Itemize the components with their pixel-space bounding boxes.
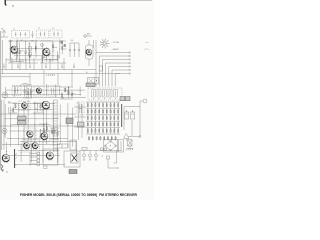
- capacitor C4 doublet: [61, 41, 66, 48]
- wire: gang drop: [94, 40, 97, 53]
- tube V8b (driver): [41, 133, 48, 141]
- wire: left edge verticals mid: [2, 100, 5, 150]
- svg-text:.01: .01: [68, 93, 70, 95]
- jack J2: [140, 99, 147, 136]
- label box: legend 1: [120, 97, 125, 101]
- harness ladder wires: [96, 52, 130, 87]
- resistor row bottom: [88, 136, 116, 141]
- shield can V3: [86, 45, 94, 59]
- tube V1 (FM RF amp): [11, 46, 18, 54]
- fuse F1: [128, 140, 133, 147]
- wire: B+ rail 2: [1, 72, 120, 74]
- antenna input cluster: [1, 30, 8, 37]
- node: stray dot: [12, 5, 13, 6]
- resistor R30: [62, 144, 68, 148]
- capacitor C21: [131, 111, 135, 120]
- wire: mid rail 2: [0, 125, 84, 127]
- label: under output box: [44, 166, 48, 168]
- audio wiring c: [50, 128, 60, 139]
- IF transformer T2: [37, 30, 49, 38]
- tube V3 (FM osc): [86, 49, 92, 56]
- shield can V6: [19, 101, 30, 111]
- svg-text:.005: .005: [70, 40, 73, 42]
- node: tap mark: [15, 164, 17, 166]
- terminal block TB1: [88, 78, 99, 85]
- label box: xformer label: [69, 170, 77, 174]
- bridge rectifier D1-D4: [104, 140, 124, 153]
- wire: dark drop: [14, 149, 16, 168]
- wire: binding mark top-left: [5, 0, 6, 5]
- svg-text:220: 220: [24, 94, 27, 96]
- wire: ladder taps: [57, 144, 62, 148]
- tube V6 (ratio det): [22, 103, 28, 110]
- wire: thick bus: [121, 104, 123, 127]
- wire: grid-left connectors: [74, 102, 86, 140]
- svg-text:68: 68: [16, 58, 18, 60]
- svg-text:300: 300: [1, 29, 4, 31]
- tube V10 (output): [32, 143, 38, 150]
- IF transformer T1 (FM ant coil): [12, 31, 30, 39]
- wire: chassis scribble bottom-left: [1, 164, 4, 172]
- resistor R8 on harness: [99, 66, 103, 71]
- resistor stack R5: [29, 47, 32, 57]
- tube V6b (FM IF amp): [42, 101, 50, 110]
- tube V10 can: [31, 140, 40, 153]
- IF transformer T6: [48, 86, 57, 96]
- label box: MPX: [78, 122, 85, 127]
- band switch S1 assembly: [88, 88, 130, 100]
- IF transformer T7: [77, 102, 84, 115]
- wire: B+ rail 1: [1, 69, 96, 71]
- shield can V8: [24, 128, 36, 140]
- audio wiring b: [39, 124, 48, 137]
- IF transformer T3: [50, 30, 62, 38]
- FM RF stage wiring: [8, 41, 38, 63]
- pilot lamp row: [80, 148, 122, 164]
- wire: right rail: [124, 107, 141, 138]
- wire: rail-to-AM droppers: [30, 70, 72, 87]
- label box: stereo ind 2: [18, 121, 27, 125]
- power transformer box: [64, 151, 80, 167]
- tube V2 (FM mixer): [43, 49, 50, 57]
- node: arrows: [15, 153, 17, 159]
- dial starburst: [100, 39, 110, 49]
- wire: page top hairline: [5, 0, 152, 2]
- wire: osc drop: [88, 40, 90, 66]
- IF transformer T4: [12, 86, 21, 96]
- svg-text:+0: +0: [101, 156, 103, 158]
- wire: left edge vertical: [0, 31, 2, 168]
- wire: stray marks right margin: [144, 42, 149, 49]
- tube V11 (rectifier): [46, 152, 53, 161]
- tube V9 can: [23, 140, 32, 153]
- wire web FM section: [6, 39, 60, 64]
- svg-text:←AM ANT: ←AM ANT: [111, 48, 119, 51]
- svg-text:.01: .01: [50, 132, 52, 134]
- speaker terminal strip: [30, 152, 40, 166]
- label box: stereo ind 1: [18, 116, 27, 120]
- wire: AC cord: [107, 156, 119, 168]
- label box: dark legend: [66, 118, 73, 124]
- output transformer box with tube V11: [43, 149, 58, 165]
- wire: IF rail: [2, 97, 86, 99]
- svg-text:68: 68: [62, 97, 64, 99]
- wire: arc hop: [20, 84, 30, 86]
- label box: switch name: [86, 83, 95, 87]
- svg-text:T3: T3: [52, 28, 54, 30]
- IF amp wiring: [60, 87, 75, 99]
- svg-text:1 2 3 5 6: 1 2 3 5 6: [46, 75, 56, 77]
- node: stray specks bottom-left: [2, 169, 7, 172]
- svg-text:.01: .01: [10, 110, 12, 112]
- node: coax input J1: [84, 35, 92, 38]
- svg-text:T2: T2: [38, 28, 40, 30]
- ground: AC hatch: [126, 146, 134, 151]
- wire web AM row: [1, 84, 85, 98]
- tube V12 (rectifier 2): [2, 154, 9, 163]
- wire: mid rail 1: [0, 113, 76, 115]
- AM conv wiring: [23, 85, 33, 98]
- label box: legend 2: [125, 97, 130, 101]
- ground: warning triangle: [124, 134, 130, 142]
- tube V4 (AM RF): [2, 92, 8, 99]
- wire web output band: [6, 141, 77, 165]
- node: osc trimmer: [41, 44, 44, 47]
- tube V5 (AM conv): [36, 88, 41, 95]
- svg-text:455: 455: [8, 102, 11, 104]
- capacitor C5 row: [69, 43, 80, 57]
- svg-text:B+: B+: [86, 72, 88, 74]
- svg-text:FISHER MODEL 500-B (SERIAL 100: FISHER MODEL 500-B (SERIAL 10000 TO 3999…: [20, 193, 138, 197]
- wire: FM-to-rail droppers: [6, 58, 64, 70]
- wire: B+ rail 3: [1, 76, 30, 78]
- multiplex decoder RC grid: [86, 102, 120, 134]
- svg-text:T1: T1: [13, 29, 15, 31]
- tube V8 (AF amp): [27, 131, 33, 139]
- wire web mid band: [2, 100, 72, 147]
- IF can T5: [34, 86, 44, 96]
- audio wiring a: [33, 103, 45, 113]
- svg-text:.01: .01: [28, 44, 30, 46]
- capacitor C30 box: [70, 140, 76, 150]
- det wiring: [8, 103, 17, 113]
- svg-text:ANT: ANT: [87, 33, 90, 36]
- svg-text:1M: 1M: [40, 110, 43, 112]
- capacitor C1: [31, 31, 33, 38]
- choke ladder L8: [54, 100, 58, 152]
- capacitor C20: [125, 111, 129, 120]
- tube V8b can: [40, 131, 50, 143]
- svg-text:←TO DIAL: ←TO DIAL: [111, 41, 119, 44]
- tube V7 (AF amp): [2, 128, 7, 135]
- tube V9 (output): [24, 143, 30, 150]
- capacitor bypass row: [3, 64, 75, 68]
- FM mixer stage wiring: [40, 41, 66, 63]
